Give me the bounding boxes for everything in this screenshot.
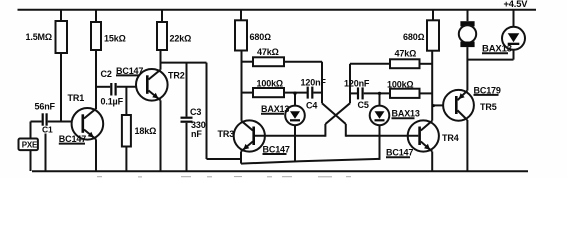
svg-text:47kΩ: 47kΩ <box>257 47 279 57</box>
wire TR3 emitter to tie line <box>240 152 242 164</box>
wire C1 node drop to ground <box>45 134 47 172</box>
svg-text:100kΩ: 100kΩ <box>257 78 284 88</box>
transistor TR4 BC147 <box>386 120 459 157</box>
svg-text:47kΩ: 47kΩ <box>395 48 417 58</box>
svg-text:BAX13: BAX13 <box>261 104 289 114</box>
svg-text:C3: C3 <box>190 107 201 117</box>
wire TR2 collector to 22k <box>160 50 162 70</box>
wire TR3 collector vertical <box>241 51 243 121</box>
svg-text:680Ω: 680Ω <box>250 32 272 42</box>
wire emitter tie line <box>241 159 380 164</box>
wire TR4 base <box>346 135 419 137</box>
svg-text:0.1µF: 0.1µF <box>101 97 124 107</box>
svg-text:TR5: TR5 <box>480 102 497 112</box>
svg-text:120nF: 120nF <box>344 79 370 89</box>
ground rail <box>32 170 528 172</box>
wire PXE riser to ground <box>30 122 32 172</box>
svg-text:TR1: TR1 <box>68 93 85 103</box>
PXE transducer <box>19 139 39 151</box>
svg-text:C2: C2 <box>101 69 112 79</box>
svg-text:680Ω: 680Ω <box>403 32 425 42</box>
resistor 22k <box>157 10 191 50</box>
cross-coupling left vertical and diagonal <box>322 62 346 137</box>
wire TR4 emitter to ground <box>431 152 433 172</box>
svg-text:56nF: 56nF <box>35 102 56 112</box>
transistor TR1 BC147 <box>59 93 103 144</box>
resistor 47k right <box>350 48 432 68</box>
resistor 100k right <box>387 79 432 98</box>
earphone <box>459 10 476 47</box>
capacitor C1 56nF <box>31 102 83 135</box>
svg-text:TR2: TR2 <box>168 71 185 81</box>
diode D3 BAX13 top right <box>482 10 525 60</box>
svg-text:BC147: BC147 <box>116 66 143 76</box>
svg-text:1.5MΩ: 1.5MΩ <box>26 32 52 42</box>
wire TR5 emitter to earphone <box>466 47 468 91</box>
svg-text:C5: C5 <box>358 100 369 110</box>
wire TR5 base <box>432 104 443 107</box>
capacitor C3 330nF <box>181 63 206 171</box>
svg-text:C1: C1 <box>42 124 53 134</box>
svg-text:BC179: BC179 <box>474 85 501 95</box>
wire TR4 collector vertical <box>431 51 433 121</box>
capacitor C2 0.1uF <box>96 69 147 107</box>
svg-text:15kΩ: 15kΩ <box>104 33 126 43</box>
svg-text:TR3: TR3 <box>218 129 235 139</box>
resistor 47k left <box>242 47 323 66</box>
transistor TR5 BC179 <box>443 85 501 120</box>
transistor TR3 BC147 <box>218 120 290 154</box>
svg-text:18kΩ: 18kΩ <box>135 126 157 136</box>
capacitor C5 120nF <box>344 79 390 111</box>
svg-text:nF: nF <box>191 129 202 139</box>
transistor TR2 BC147 <box>116 66 185 101</box>
svg-text:22kΩ: 22kΩ <box>170 33 192 43</box>
wire TR2 emitter to ground <box>160 100 162 171</box>
resistor 15k <box>91 10 126 109</box>
svg-text:BC147: BC147 <box>263 144 290 154</box>
svg-text:C4: C4 <box>306 100 317 110</box>
svg-text:BC147: BC147 <box>386 148 413 158</box>
svg-text:BAX13: BAX13 <box>392 109 420 119</box>
resistor 680 left <box>235 10 271 51</box>
caption remnants at bottom edge <box>97 176 351 177</box>
svg-text:100kΩ: 100kΩ <box>387 79 414 89</box>
svg-text:+4.5V: +4.5V <box>504 0 529 9</box>
wire TR5 collector to ground <box>466 120 468 171</box>
svg-text:TR4: TR4 <box>442 133 459 143</box>
svg-text:PXE: PXE <box>22 141 38 150</box>
wire TR3 base <box>255 135 325 137</box>
svg-text:BC147: BC147 <box>59 134 86 144</box>
capacitor C4 120nF <box>301 77 327 110</box>
resistor 100k left <box>242 78 307 97</box>
resistor 18k <box>122 87 156 171</box>
+4.5V supply rail <box>18 0 537 10</box>
diode D1 BAX13 left <box>261 92 305 162</box>
wire TR2 collector to multivibrator emitters <box>161 63 242 159</box>
resistor 1.5M <box>26 10 68 122</box>
diode D2 BAX13 right <box>370 92 420 160</box>
wire D3 to earphone node <box>467 59 513 61</box>
wire TR1 emitter to ground <box>95 139 97 171</box>
cross-coupling right vertical and diagonal <box>325 64 350 137</box>
resistor 680 right <box>403 10 439 51</box>
